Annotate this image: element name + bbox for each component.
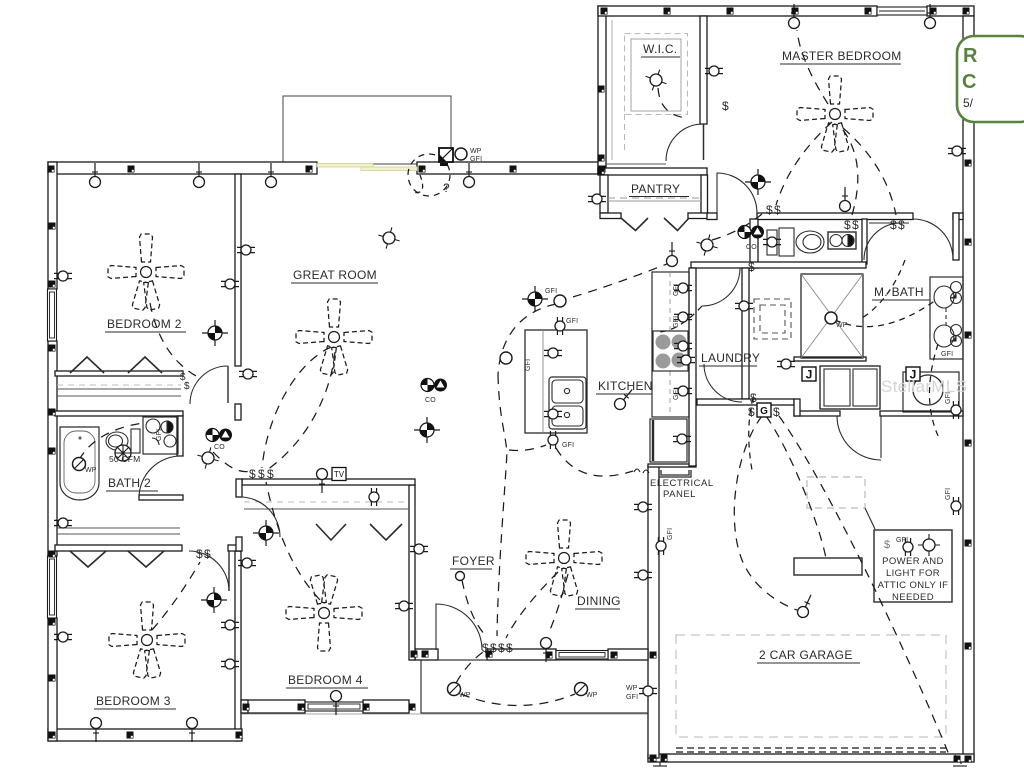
laundry west wall is kitchen east wall; laundry east wall xyxy=(742,268,749,399)
power/light attic note box xyxy=(874,530,952,602)
bedroom2 closet bifold xyxy=(70,357,104,373)
xlights xyxy=(642,66,670,94)
garage left wall xyxy=(648,466,659,758)
svg-text:PANTRY: PANTRY xyxy=(631,182,680,196)
svg-text:BEDROOM 4: BEDROOM 4 xyxy=(288,673,363,687)
svg-text:KITCHEN: KITCHEN xyxy=(598,379,653,393)
garage north wall (mbath bottom) xyxy=(794,411,840,416)
bedroom2 closet shelves xyxy=(57,388,181,390)
bedroom4 bottom wall xyxy=(242,700,305,713)
svg-text:$: $ xyxy=(774,203,781,217)
washer dryer units xyxy=(820,366,880,409)
attic access dashed xyxy=(807,477,865,508)
laundry top door xyxy=(702,268,740,306)
bedroom4 door xyxy=(240,497,280,537)
pantry shelves xyxy=(608,198,701,201)
bedroom3 bottom wall xyxy=(48,729,242,741)
svg-text:GFI: GFI xyxy=(626,694,638,701)
mbath gfi pair xyxy=(951,401,961,419)
wic floor line xyxy=(606,163,666,165)
svg-text:$: $ xyxy=(884,539,890,551)
svg-text:M. BATH: M. BATH xyxy=(874,285,924,299)
porch outline top-left xyxy=(283,96,451,164)
fridge cabinet xyxy=(650,419,687,462)
laundry xyxy=(735,301,753,311)
green stamp xyxy=(957,36,1024,122)
svg-text:$: $ xyxy=(204,547,211,561)
svg-text:GFI: GFI xyxy=(673,388,680,400)
svg-text:$: $ xyxy=(844,218,851,232)
svg-text:C: C xyxy=(962,71,976,93)
bath2 right wall xyxy=(177,416,183,456)
great room / master hall door xyxy=(717,173,757,213)
svg-text:GFI: GFI xyxy=(945,488,952,500)
svg-text:GFI: GFI xyxy=(941,351,953,358)
bedroom3/4 step connector xyxy=(241,700,248,713)
great room west wall xyxy=(235,174,241,366)
pantry left wall xyxy=(600,175,608,213)
garage opener unit xyxy=(794,558,862,575)
electrical panel xyxy=(659,470,691,477)
bottom walls xyxy=(127,732,134,739)
bedroom3 closet wall xyxy=(55,545,182,551)
TV box xyxy=(332,468,346,481)
master bedroom xyxy=(705,66,723,76)
svg-text:GFI: GFI xyxy=(525,359,532,371)
svg-text:GFI: GFI xyxy=(667,528,674,540)
recessed lights plain xyxy=(456,295,567,581)
wic door leaf + arc xyxy=(703,124,705,160)
bedroom4 bottom window xyxy=(305,702,363,711)
svg-text:GFI: GFI xyxy=(470,156,482,163)
CO detectors xyxy=(206,429,232,442)
svg-text:$: $ xyxy=(898,218,905,232)
smoke detectors xyxy=(202,320,228,346)
shower bottom wall xyxy=(794,357,866,361)
svg-text:GFI: GFI xyxy=(945,392,952,404)
jboxes xyxy=(802,367,816,382)
water heater xyxy=(903,372,959,412)
kitchen east wall xyxy=(689,268,696,466)
svg-text:$: $ xyxy=(498,641,505,655)
porch / misc xyxy=(639,686,657,696)
svg-text:TV: TV xyxy=(334,470,345,479)
svg-text:WP: WP xyxy=(586,692,598,699)
laundry bottom door xyxy=(704,364,742,402)
sliding door pale panels xyxy=(317,164,373,168)
stove burners xyxy=(653,331,688,371)
svg-text:$: $ xyxy=(748,405,755,419)
svg-text:$: $ xyxy=(890,218,897,232)
bedroom3 right wall xyxy=(235,551,241,741)
dining/garage wall xyxy=(634,502,652,512)
svg-text:$: $ xyxy=(773,405,780,419)
svg-text:LIGHT FOR: LIGHT FOR xyxy=(886,568,940,579)
bedroom2 door xyxy=(227,366,229,403)
svg-text:WP: WP xyxy=(836,322,848,329)
wc east wall xyxy=(862,219,867,264)
left wall xyxy=(49,223,56,230)
roofline / slab edge xyxy=(242,713,648,715)
svg-text:CO: CO xyxy=(425,397,436,404)
svg-text:WP: WP xyxy=(626,685,638,692)
svg-text:WP: WP xyxy=(85,467,97,474)
G box xyxy=(757,403,771,417)
ground symbol xyxy=(653,755,967,768)
master suite left wall xyxy=(598,6,606,174)
garage interior dashed outline xyxy=(676,635,946,737)
entry / dining bottom wall xyxy=(415,649,438,660)
small annotations xyxy=(85,148,953,701)
wall jog kitchen to garage xyxy=(648,464,696,467)
range counter xyxy=(652,272,689,417)
svg-text:$: $ xyxy=(249,467,256,481)
linen closet dashed xyxy=(754,299,791,339)
svg-text:W.I.C.: W.I.C. xyxy=(643,42,677,56)
power and light note xyxy=(878,556,949,603)
svg-text:$: $ xyxy=(852,218,859,232)
svg-text:LAUNDRY: LAUNDRY xyxy=(701,351,760,365)
svg-text:FOYER: FOYER xyxy=(452,554,495,568)
wc toilet xyxy=(767,228,824,256)
svg-text:G: G xyxy=(760,406,768,417)
svg-text:GFI: GFI xyxy=(545,288,557,295)
master top wall xyxy=(598,6,877,16)
shower with X xyxy=(801,274,863,358)
svg-text:?: ? xyxy=(443,181,450,195)
svg-text:DINING: DINING xyxy=(577,594,621,608)
svg-text:NEEDED: NEEDED xyxy=(892,592,934,603)
right exterior wall xyxy=(963,16,974,761)
svg-text:BEDROOM 3: BEDROOM 3 xyxy=(96,694,171,708)
right wall xyxy=(965,160,972,167)
svg-text:$: $ xyxy=(722,99,729,113)
svg-text:$: $ xyxy=(482,641,489,655)
black squares: top wall xyxy=(48,166,55,173)
svg-text:$: $ xyxy=(258,467,265,481)
bedroom4 closet bifold xyxy=(316,524,346,540)
wic right wall xyxy=(700,16,707,124)
svg-text:PANEL: PANEL xyxy=(663,489,696,500)
bedroom3 closet shelves xyxy=(57,527,180,529)
kitchen outlets xyxy=(555,317,565,335)
svg-text:GFI: GFI xyxy=(156,429,163,441)
pantry top wall xyxy=(598,168,707,175)
laundry-garage door xyxy=(837,416,881,460)
svg-text:$: $ xyxy=(748,260,755,274)
bedroom4 closet top wall xyxy=(242,479,415,485)
kitchen island with sink xyxy=(525,330,587,433)
svg-text:$: $ xyxy=(506,641,513,655)
svg-text:ATTIC ONLY IF: ATTIC ONLY IF xyxy=(878,580,949,591)
svg-text:POWER AND: POWER AND xyxy=(882,556,944,567)
svg-text:CO: CO xyxy=(746,244,757,251)
svg-text:$: $ xyxy=(267,467,274,481)
pantry bottom segments xyxy=(600,213,621,219)
front door xyxy=(436,604,482,650)
bedroom3 door xyxy=(228,551,230,591)
wc bottom wall xyxy=(691,262,866,268)
mbath door east wall stub xyxy=(953,213,963,220)
mbath doors (double arcs) xyxy=(913,219,953,259)
bedroom2 closet wall xyxy=(55,371,183,376)
master top xyxy=(601,8,608,15)
laundry bottom wall xyxy=(697,399,794,405)
svg-text:GREAT ROOM: GREAT ROOM xyxy=(293,268,377,282)
svg-text:50 CFM: 50 CFM xyxy=(109,454,140,464)
bath2 top wall xyxy=(55,411,183,416)
wc vanity xyxy=(828,232,856,249)
50cfm exhaust fan xyxy=(115,445,131,461)
svg-text:GFI: GFI xyxy=(673,284,680,296)
bedroom2/greatroom walls xyxy=(221,279,239,289)
pantry bifold doors xyxy=(621,218,648,231)
wic shelving xyxy=(612,20,688,160)
svg-text:BATH 2: BATH 2 xyxy=(108,476,151,490)
mbath vanity right xyxy=(930,277,963,359)
master top window xyxy=(877,7,927,15)
svg-text:GFI: GFI xyxy=(566,318,578,325)
left window 1 xyxy=(48,289,57,341)
svg-text:StellarMLS: StellarMLS xyxy=(881,377,967,396)
left exterior wall segments xyxy=(48,162,57,289)
svg-text:$: $ xyxy=(490,641,497,655)
bath2 toilet xyxy=(106,429,140,453)
svg-text:GFI: GFI xyxy=(673,316,680,328)
bath2 door xyxy=(139,456,181,498)
garage door dashed xyxy=(676,747,946,749)
master hall top wall (wc corridor) xyxy=(757,213,913,220)
bedroom4 right wall (foyer west) xyxy=(409,485,415,660)
svg-text:$: $ xyxy=(196,547,203,561)
svg-text:R: R xyxy=(963,45,978,67)
ceiling fans xyxy=(108,234,184,311)
svg-text:GFI: GFI xyxy=(562,442,574,449)
bath2 tub xyxy=(60,427,99,500)
wire: top wall left wing, left of slider xyxy=(48,162,317,174)
pantry right wall xyxy=(701,175,708,218)
svg-text:WP: WP xyxy=(470,148,482,155)
svg-text:2 CAR GARAGE: 2 CAR GARAGE xyxy=(759,648,853,662)
garage bottom wall xyxy=(648,754,974,762)
svg-text:ELECTRICAL: ELECTRICAL xyxy=(650,478,714,489)
svg-text:$: $ xyxy=(750,391,757,405)
svg-text:BEDROOM 2: BEDROOM 2 xyxy=(107,317,182,331)
bedroom4 closet shelves xyxy=(244,501,409,503)
left window 2 xyxy=(48,556,57,618)
svg-text:WP: WP xyxy=(459,692,471,699)
WP lights xyxy=(73,148,838,696)
bath2 vanity xyxy=(143,417,178,454)
front porch outline xyxy=(421,660,648,713)
outlets: left wall xyxy=(54,271,72,281)
dining window xyxy=(556,651,608,660)
svg-text:$: $ xyxy=(766,203,773,217)
switches xyxy=(180,99,905,655)
wire: top wall left wing, right of slider xyxy=(417,162,598,174)
svg-text:5/: 5/ xyxy=(963,96,974,110)
bedroom3 closet bifold xyxy=(70,551,106,567)
room labels with underlines xyxy=(94,42,930,709)
wc left wall xyxy=(750,219,758,268)
svg-text:MASTER BEDROOM: MASTER BEDROOM xyxy=(782,49,902,63)
junction box with diagonal at slider xyxy=(439,148,453,166)
svg-text:CO: CO xyxy=(214,444,225,451)
svg-text:$: $ xyxy=(184,381,190,392)
electrical panel text xyxy=(650,478,714,500)
ceiling lights on walls xyxy=(90,163,101,188)
bath2 bottom walls xyxy=(139,495,183,500)
master left wall xyxy=(598,86,605,93)
